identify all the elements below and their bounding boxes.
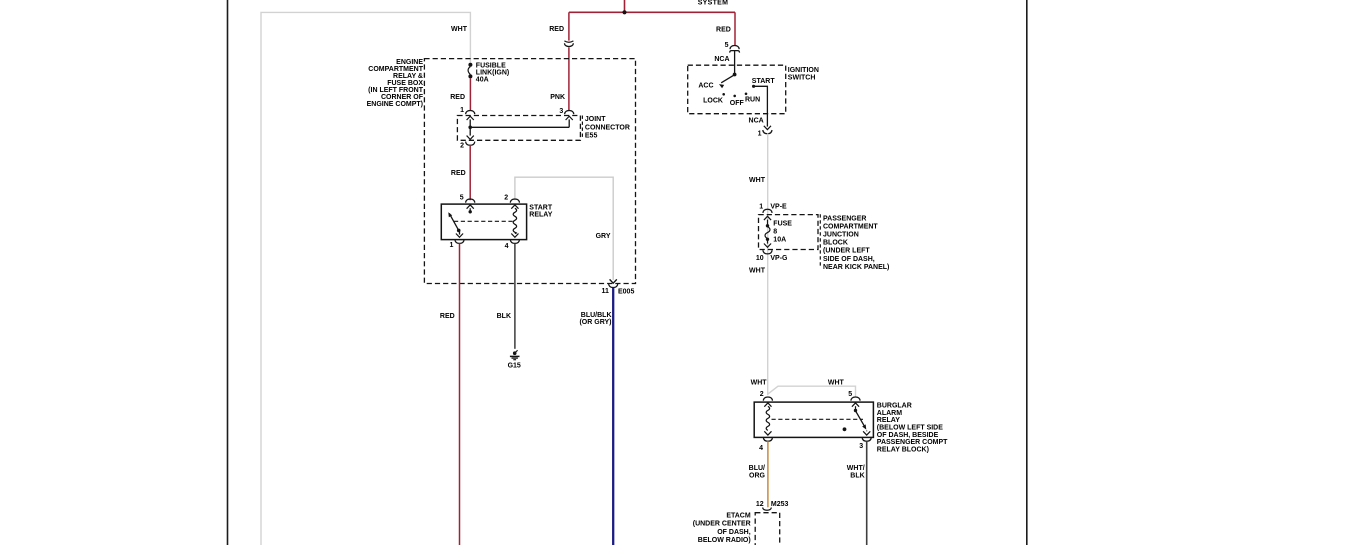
svg-text:BLK: BLK [497, 313, 511, 320]
svg-text:2: 2 [460, 143, 464, 150]
svg-text:SWITCH: SWITCH [788, 75, 816, 82]
svg-text:5: 5 [460, 195, 464, 202]
svg-text:M253: M253 [771, 501, 789, 508]
svg-text:NCA: NCA [749, 118, 764, 125]
svg-text:RED: RED [440, 313, 455, 320]
svg-text:RELAY BLOCK): RELAY BLOCK) [877, 446, 929, 453]
svg-text:ETACM: ETACM [726, 512, 751, 519]
svg-text:BLU/: BLU/ [749, 465, 765, 472]
svg-text:ENGINE COMPT): ENGINE COMPT) [367, 101, 423, 108]
svg-text:FUSE: FUSE [773, 221, 792, 228]
svg-text:(IN LEFT FRONT: (IN LEFT FRONT [368, 87, 424, 94]
svg-text:RED: RED [450, 94, 465, 101]
svg-text:(UNDER LEFT: (UNDER LEFT [823, 248, 870, 255]
svg-text:RUN: RUN [745, 97, 760, 104]
svg-text:FUSIBLE: FUSIBLE [476, 62, 506, 69]
svg-text:BLOCK: BLOCK [823, 240, 848, 247]
svg-text:PNK: PNK [550, 94, 565, 101]
svg-text:CONNECTOR: CONNECTOR [585, 124, 630, 131]
svg-text:WHT: WHT [751, 379, 768, 386]
svg-text:ENGINE: ENGINE [396, 59, 423, 66]
svg-text:PASSENGER COMPT: PASSENGER COMPT [877, 439, 948, 446]
svg-text:NEAR KICK PANEL): NEAR KICK PANEL) [823, 264, 889, 271]
svg-text:FUSE BOX: FUSE BOX [387, 80, 423, 87]
svg-text:ACC: ACC [698, 82, 713, 89]
svg-text:1: 1 [449, 242, 453, 249]
svg-text:10: 10 [756, 255, 764, 262]
svg-text:ALARM: ALARM [877, 410, 902, 417]
svg-text:RED: RED [716, 26, 731, 33]
svg-text:4: 4 [505, 243, 509, 250]
svg-text:RED: RED [451, 170, 466, 177]
svg-text:OF DASH,: OF DASH, [717, 529, 751, 536]
svg-text:5: 5 [725, 42, 729, 49]
svg-text:2: 2 [760, 391, 764, 398]
svg-text:WHT/: WHT/ [847, 465, 865, 472]
svg-text:OF DASH, BESIDE: OF DASH, BESIDE [877, 432, 939, 439]
svg-text:OFF: OFF [730, 100, 745, 107]
svg-text:BLK: BLK [850, 473, 864, 480]
svg-text:START: START [752, 78, 776, 85]
svg-text:(BELOW LEFT SIDE: (BELOW LEFT SIDE [877, 424, 943, 431]
svg-text:RELAY &: RELAY & [393, 73, 423, 80]
svg-text:E005: E005 [618, 288, 634, 295]
svg-text:SIDE OF DASH,: SIDE OF DASH, [823, 256, 875, 263]
svg-text:(UNDER CENTER: (UNDER CENTER [693, 521, 751, 528]
svg-text:GRY: GRY [596, 233, 611, 240]
svg-text:BLU/BLK: BLU/BLK [581, 312, 612, 319]
svg-text:3: 3 [859, 443, 863, 450]
svg-text:JUNCTION: JUNCTION [823, 232, 859, 239]
svg-text:12: 12 [756, 501, 764, 508]
svg-text:RED: RED [549, 26, 564, 33]
svg-text:BELOW RADIO): BELOW RADIO) [698, 537, 751, 544]
svg-text:RELAY: RELAY [529, 212, 552, 219]
svg-text:1: 1 [759, 203, 763, 210]
svg-text:JOINT: JOINT [585, 116, 606, 123]
svg-text:NCA: NCA [714, 56, 729, 63]
svg-text:COMPARTMENT: COMPARTMENT [823, 223, 878, 230]
svg-text:WHT: WHT [749, 268, 766, 275]
svg-text:COMPARTMENT: COMPARTMENT [368, 66, 423, 73]
svg-text:IGNITION: IGNITION [788, 67, 819, 74]
svg-text:3: 3 [559, 108, 563, 115]
svg-text:8: 8 [773, 229, 777, 236]
svg-text:G15: G15 [508, 362, 521, 369]
svg-text:WHT: WHT [828, 379, 845, 386]
svg-text:10A: 10A [773, 236, 786, 243]
svg-text:4: 4 [759, 445, 763, 452]
svg-text:PASSENGER: PASSENGER [823, 215, 866, 222]
svg-text:START: START [529, 204, 553, 211]
svg-text:VP-E: VP-E [770, 203, 787, 210]
svg-text:ORG: ORG [749, 473, 766, 480]
svg-text:11: 11 [601, 288, 609, 295]
svg-text:1: 1 [460, 107, 464, 114]
svg-text:WHT: WHT [451, 26, 468, 33]
svg-text:LINK(IGN): LINK(IGN) [476, 69, 509, 76]
svg-text:BURGLAR: BURGLAR [877, 403, 912, 410]
svg-text:E55: E55 [585, 133, 598, 140]
svg-text:1: 1 [758, 131, 762, 138]
svg-text:SYSTEM: SYSTEM [698, 0, 729, 6]
svg-text:RELAY: RELAY [877, 417, 900, 424]
svg-text:CORNER OF: CORNER OF [381, 94, 424, 101]
svg-text:(OR GRY): (OR GRY) [579, 319, 611, 326]
svg-text:40A: 40A [476, 77, 489, 84]
svg-text:WHT: WHT [749, 177, 766, 184]
svg-text:LOCK: LOCK [703, 98, 723, 105]
svg-text:2: 2 [504, 195, 508, 202]
svg-text:5: 5 [848, 391, 852, 398]
svg-text:VP-G: VP-G [770, 255, 788, 262]
